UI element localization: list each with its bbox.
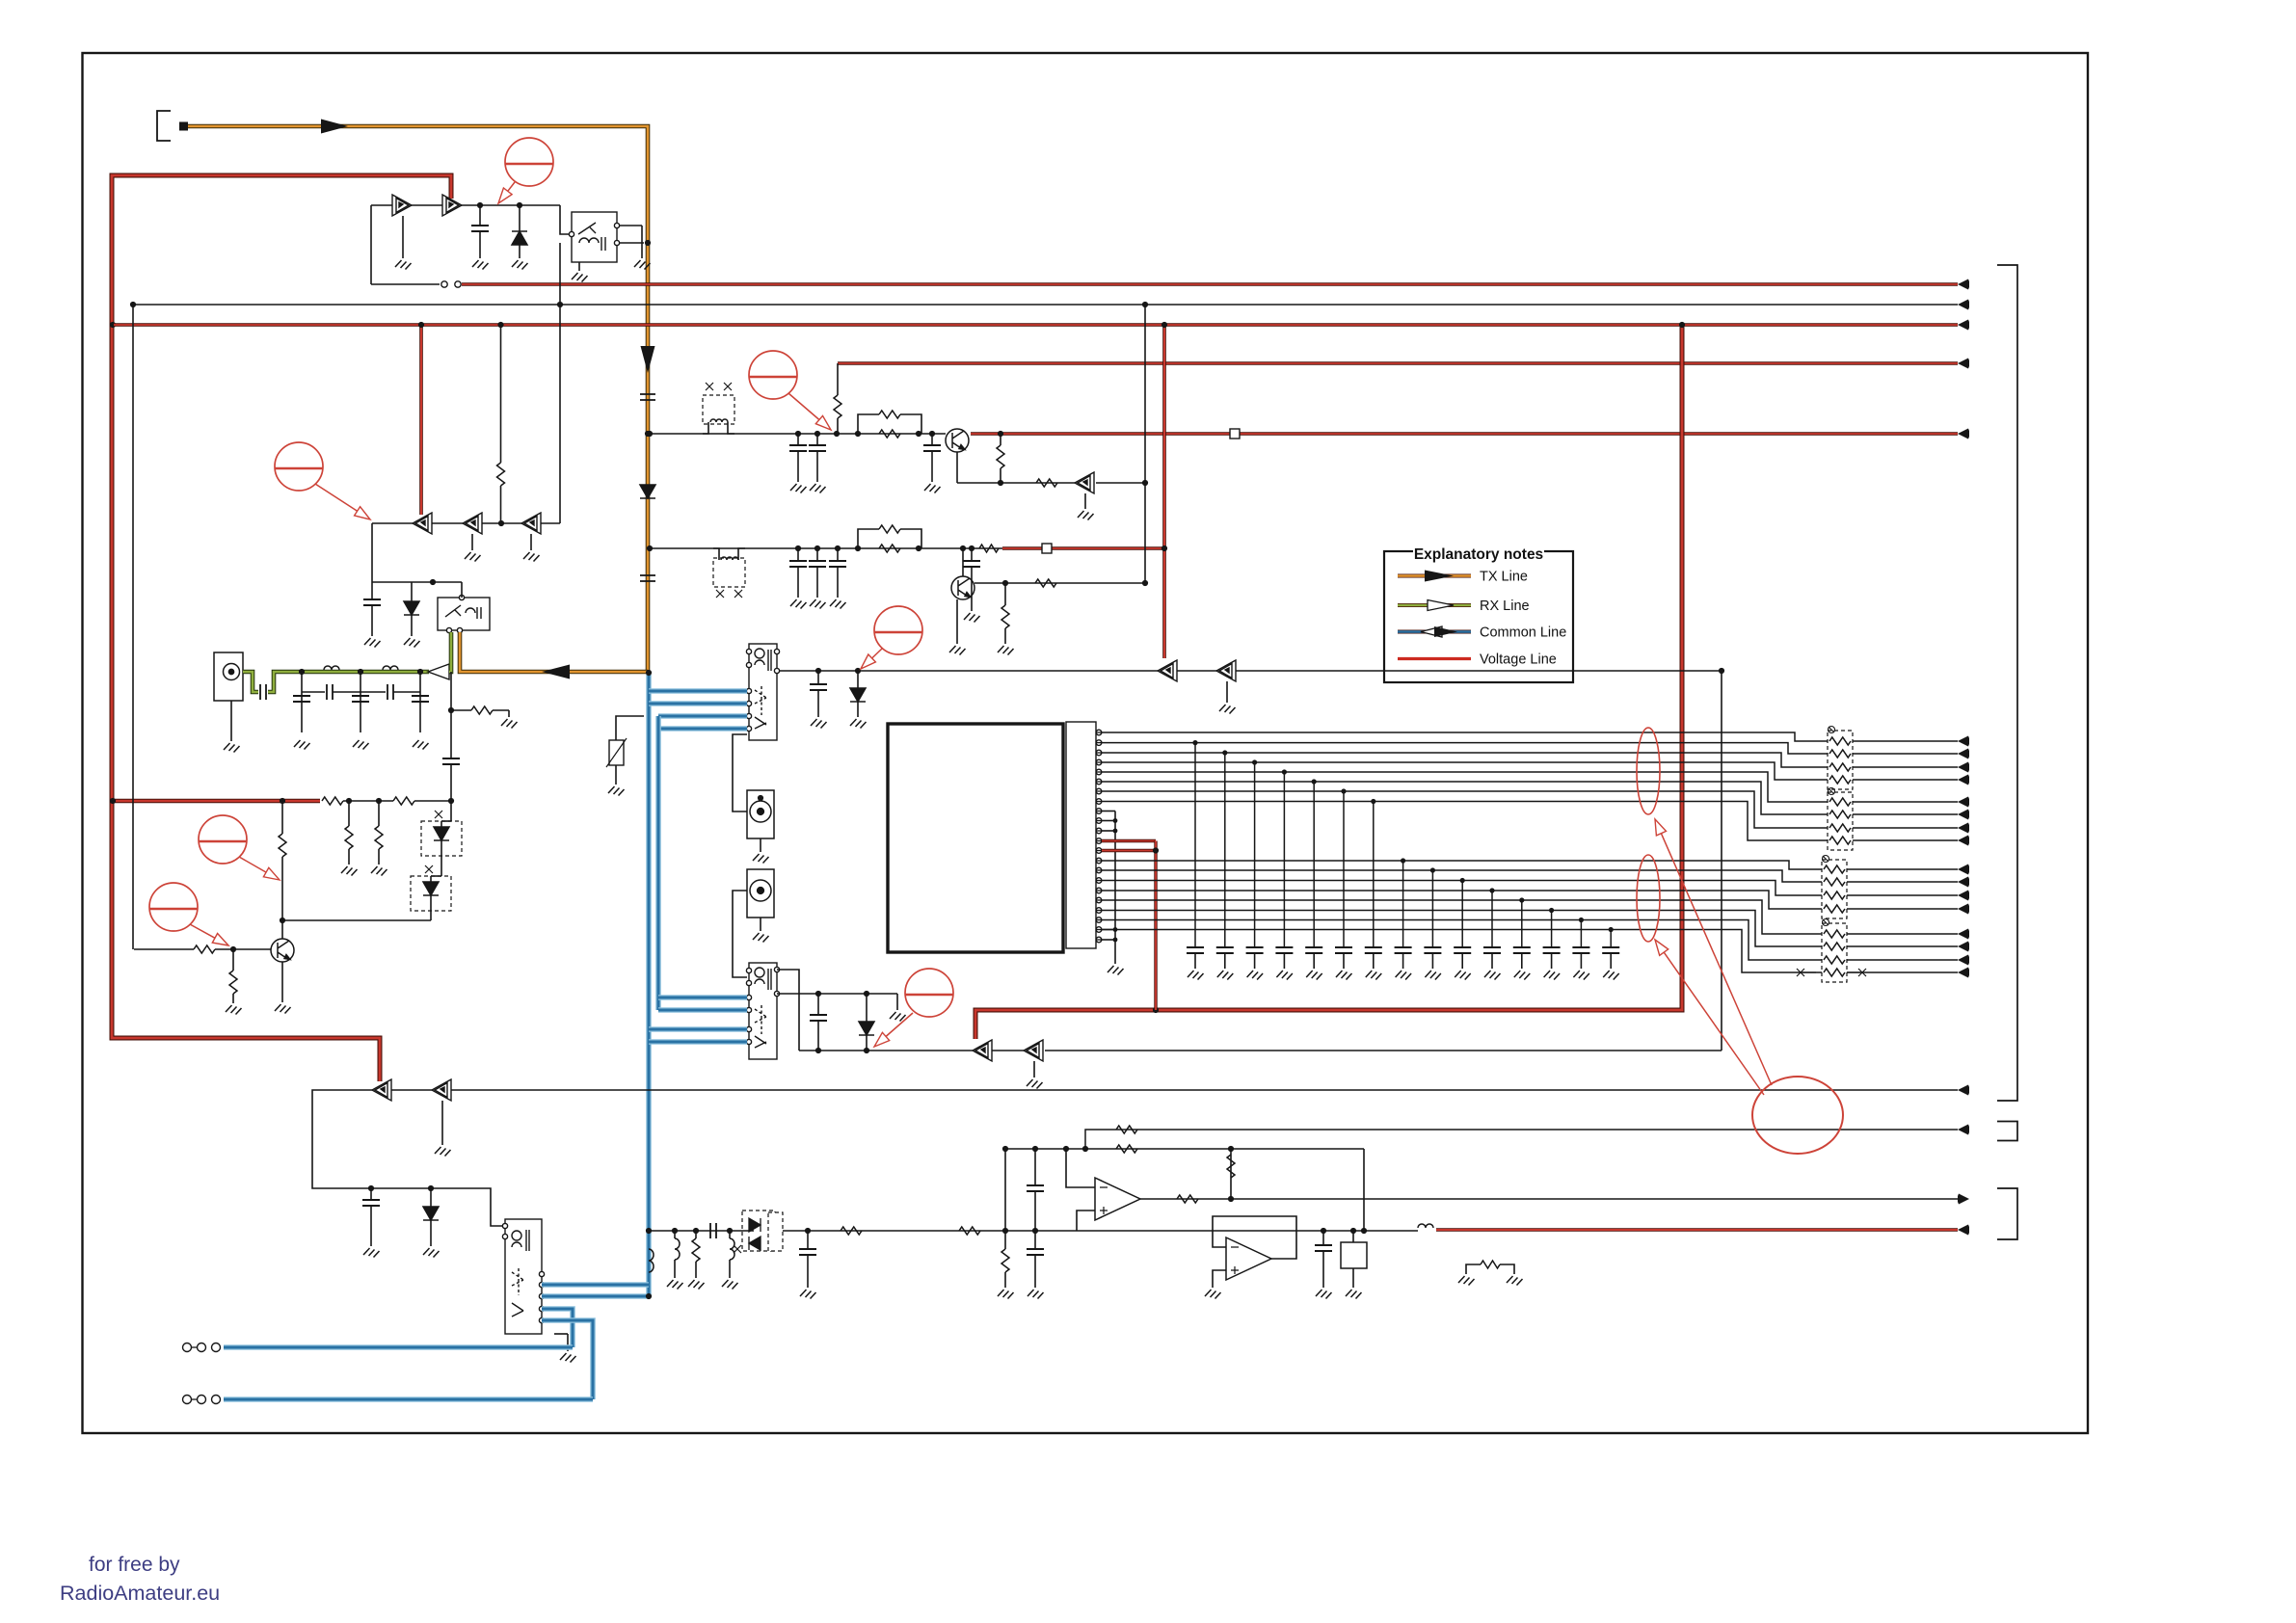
- svg-text:TX Line: TX Line: [1480, 570, 1528, 585]
- ground: [1108, 966, 1124, 975]
- ground: [1544, 971, 1561, 980]
- IC pin: [1096, 848, 1102, 854]
- resistor R q1b: [194, 945, 215, 953]
- off-page connector arrow: [1958, 968, 1969, 978]
- IC pin: [1096, 828, 1102, 834]
- buffer U7a: [372, 1079, 391, 1101]
- wire pin stub: [1096, 850, 1102, 852]
- capacitor: [363, 599, 381, 605]
- x-mark: [1858, 969, 1866, 976]
- resistor pack element: [1829, 798, 1851, 806]
- wire decoupling drop: [1491, 891, 1493, 947]
- capacitor C dec: [1216, 947, 1234, 953]
- node q1 col: [280, 918, 285, 923]
- node pin tie: [1113, 938, 1118, 943]
- wire: [441, 840, 442, 876]
- callout arrow: [886, 1013, 913, 1037]
- inductor: [324, 666, 339, 670]
- wire rx resistor branch: [450, 672, 452, 710]
- wire: [430, 876, 432, 882]
- wire decoupling drop: [1313, 782, 1315, 947]
- wire: [729, 1231, 731, 1238]
- wire common row1: [224, 1344, 573, 1350]
- capacitor C dec: [1187, 947, 1204, 953]
- node a7: [998, 431, 1003, 437]
- buffer U3c: [521, 513, 541, 534]
- relay pin: [446, 627, 451, 632]
- capacitor C rx s2: [387, 684, 393, 700]
- node m2: [855, 668, 861, 674]
- wire: [641, 226, 643, 258]
- inductor L fc1: [675, 1238, 680, 1260]
- callout circle 6: [874, 606, 922, 654]
- resistor R rx: [471, 706, 493, 714]
- pack pin mark: [1829, 788, 1835, 795]
- callout ellipse large: [1752, 1077, 1843, 1154]
- wire pack out: [1847, 908, 1958, 910]
- wire rowA jog: [703, 422, 708, 434]
- callout circle 5: [149, 883, 198, 931]
- wire U9 plus: [1213, 1270, 1226, 1288]
- capacitor C dec: [1246, 947, 1264, 953]
- crystal box X1: [1341, 1242, 1367, 1268]
- capacitor C ll: [362, 1200, 380, 1206]
- node y831c: [448, 798, 454, 804]
- diode on TX feed: [640, 485, 655, 498]
- buffer U3b: [463, 513, 482, 534]
- callout circle 2: [275, 442, 323, 491]
- inductor L fc2: [730, 1238, 734, 1260]
- wire: [1352, 1268, 1354, 1288]
- off-page connector arrow: [1958, 942, 1969, 952]
- IC pin: [1096, 897, 1102, 903]
- wire pin ground rail: [1114, 811, 1116, 965]
- buffer U6b: [1024, 1040, 1043, 1061]
- IC pin: [1096, 779, 1102, 785]
- ground: [890, 1012, 906, 1022]
- capacitor C dec: [1602, 947, 1619, 953]
- ground: [1028, 1290, 1044, 1299]
- wire pack out: [1847, 868, 1958, 870]
- node pin tie: [1113, 818, 1118, 823]
- svg-text:Common Line: Common Line: [1480, 625, 1566, 641]
- wire T3 feed left: [491, 1219, 502, 1226]
- wire out res up: [1230, 1149, 1232, 1199]
- ground: [1217, 971, 1234, 980]
- capacitor C dec: [1305, 947, 1322, 953]
- diode D t1: [512, 231, 527, 245]
- wire: [817, 690, 819, 717]
- wire IC data line: [1102, 772, 1828, 802]
- wire U8 plus in: [1077, 1211, 1095, 1231]
- wire pack out: [1853, 839, 1958, 841]
- wire decoupling drop: [1610, 930, 1612, 948]
- off-page connector arrow: [1958, 891, 1969, 901]
- resistor pack RP2: [1828, 792, 1853, 850]
- off-page connector arrow: [1958, 810, 1969, 820]
- ground: [830, 599, 846, 609]
- wire y1131 long: [451, 1089, 1958, 1091]
- wire q3 emitter: [956, 599, 958, 644]
- node q1 base: [230, 946, 236, 952]
- node y604: [430, 579, 436, 585]
- wire decoupling drop: [1461, 881, 1463, 948]
- S2 pin: [746, 1039, 751, 1044]
- callout arrow: [788, 393, 819, 420]
- T3 pin: [539, 1271, 544, 1276]
- resistor R au3: [1001, 1249, 1009, 1272]
- node x519-bus2: [497, 322, 503, 328]
- node ll2: [428, 1185, 434, 1191]
- ground: [811, 719, 827, 729]
- capacitor C au3: [1315, 1245, 1332, 1251]
- wire U4 out: [1096, 482, 1145, 484]
- wire: [1034, 1255, 1036, 1288]
- bracket group right 1: [1997, 265, 2017, 1101]
- resistor pack element: [1824, 956, 1845, 964]
- S1 pin: [746, 713, 751, 718]
- S2 pin out: [774, 967, 779, 971]
- wire: [797, 451, 799, 482]
- wire: [431, 875, 441, 877]
- wire J2 stem: [760, 838, 761, 852]
- ground: [294, 740, 310, 750]
- node blue join: [646, 1293, 652, 1299]
- wire: [857, 702, 859, 717]
- callout arrow: [872, 649, 882, 658]
- bracket group right 3: [1997, 1188, 2017, 1239]
- wire pin stub: [1096, 761, 1102, 763]
- ground: [1027, 1079, 1043, 1089]
- resistor R out: [1177, 1195, 1198, 1203]
- wire decoupling drop: [1551, 911, 1553, 948]
- wire IC data line: [1102, 753, 1828, 767]
- resistor R fc: [692, 1238, 700, 1262]
- op-amp U9: [1226, 1237, 1271, 1280]
- ground: [1507, 1276, 1523, 1286]
- wire: [519, 245, 521, 258]
- node row543: [498, 520, 504, 526]
- ground: [924, 484, 941, 493]
- capacitor C b: [809, 561, 826, 567]
- wire pin stub: [1096, 771, 1102, 773]
- wire U7a link: [391, 1089, 432, 1091]
- resistor R a p2: [879, 430, 900, 438]
- callout arrow: [315, 484, 358, 511]
- ground: [1455, 971, 1471, 980]
- node drop tap: [1252, 759, 1257, 764]
- wire pin tie: [1102, 929, 1115, 931]
- capacitor C rx coupling: [260, 684, 266, 700]
- node s2c: [815, 1048, 821, 1053]
- resistor pack element: [1824, 943, 1845, 950]
- resistor pack RP3: [1822, 860, 1847, 918]
- resistor R y831b: [375, 826, 383, 849]
- wire subcircuit top y213: [371, 204, 560, 206]
- x-mark: [425, 865, 433, 873]
- S1 pin: [746, 649, 751, 653]
- capacitor C dec: [1424, 947, 1441, 953]
- node drop tap: [1519, 897, 1524, 902]
- resistor pack element: [1824, 891, 1845, 899]
- ground: [688, 1280, 705, 1290]
- wire pin stub: [1096, 781, 1102, 783]
- wire pin stub: [1096, 732, 1102, 733]
- S1 pin out: [774, 649, 779, 653]
- capacitor C s2: [810, 1015, 827, 1021]
- IC pin: [1096, 878, 1102, 884]
- callout arrow: [1664, 952, 1764, 1095]
- wire relay out2: [620, 242, 644, 244]
- wire J3 link: [733, 891, 747, 977]
- node out1: [1228, 1196, 1234, 1202]
- resistor pack element: [1824, 930, 1845, 938]
- wire b cap out: [971, 548, 973, 561]
- ground: [224, 743, 240, 753]
- capacitor C fc series: [710, 1223, 716, 1238]
- wire pin stub: [1096, 880, 1102, 882]
- capacitor on TX feed 2: [640, 575, 655, 581]
- capacitor C rx c: [412, 696, 429, 702]
- wire pack out: [1853, 740, 1958, 742]
- IC pin: [1096, 937, 1102, 943]
- wire row A: [650, 433, 946, 435]
- x-mark: [734, 1245, 741, 1253]
- ground: [523, 552, 540, 562]
- ground: [1514, 971, 1531, 980]
- node a3: [834, 431, 840, 437]
- wire y501: [957, 482, 1075, 484]
- node a4: [855, 431, 861, 437]
- S1 pin: [746, 688, 751, 693]
- wire IC data line: [1102, 930, 1822, 973]
- node TX-rowB: [647, 545, 653, 551]
- resistor R fb B: [1035, 579, 1056, 587]
- ground: [1336, 971, 1352, 980]
- ground: [395, 260, 412, 270]
- wire au main 2: [1077, 1230, 1418, 1232]
- buffer U2a: [392, 195, 412, 216]
- TX direction arrow: [321, 120, 348, 134]
- wire b cap: [816, 548, 818, 561]
- ground: [810, 484, 826, 493]
- wire y831 black: [343, 800, 393, 802]
- wire U5b gnd: [1226, 681, 1228, 703]
- capacitor C dec: [1275, 947, 1293, 953]
- S2 pin out: [774, 991, 779, 996]
- wire U3b gnd stem: [471, 534, 473, 550]
- ground: [1458, 1276, 1475, 1286]
- wire y831 to detector: [414, 800, 451, 802]
- buffer U6a: [973, 1040, 992, 1061]
- ground: [353, 740, 369, 750]
- wire pack out: [1847, 945, 1958, 947]
- node b3: [835, 545, 841, 551]
- wire: [411, 582, 413, 601]
- wire: [738, 548, 745, 560]
- diode D y604: [404, 601, 419, 615]
- S2 pin: [746, 1026, 751, 1031]
- wire pin stub: [1096, 811, 1102, 812]
- ground: [226, 1005, 242, 1015]
- wire q1 emitter: [281, 962, 283, 1002]
- ground: [423, 1248, 440, 1258]
- ground: [1316, 1290, 1332, 1299]
- IC U1: [888, 724, 1063, 952]
- node drop tap: [1222, 750, 1227, 755]
- node b5: [916, 545, 921, 551]
- wire: [857, 671, 859, 688]
- antenna connector J1: [214, 652, 243, 701]
- wire au3 cap: [1322, 1231, 1324, 1245]
- node IC supply: [1153, 847, 1159, 853]
- ground: [800, 1290, 816, 1299]
- resistor R a bias: [834, 395, 841, 418]
- wire: [450, 764, 452, 821]
- resistor pack element: [1829, 811, 1851, 818]
- inductor L blue: [649, 1249, 654, 1272]
- marker square on B5: [1042, 544, 1052, 553]
- ground: [275, 1004, 291, 1014]
- wire: [837, 567, 839, 598]
- switch block S1: [749, 644, 777, 740]
- node s2d: [864, 1048, 869, 1053]
- node b6: [969, 545, 974, 551]
- wire: [281, 857, 283, 920]
- resistor R y831a: [345, 826, 353, 849]
- wire au0 cap: [807, 1231, 809, 1249]
- op-amp U8: [1095, 1178, 1140, 1220]
- ground: [1276, 971, 1293, 980]
- node rail top: [130, 302, 136, 307]
- ground: [1573, 971, 1589, 980]
- wire q1 base row: [134, 948, 194, 950]
- node y831a: [346, 798, 352, 804]
- node TX tap A: [645, 431, 651, 437]
- pack pin mark: [1823, 856, 1829, 863]
- node rx3: [417, 669, 423, 675]
- resistor pack element: [1824, 878, 1845, 886]
- wire: [729, 1260, 731, 1278]
- wire: [479, 205, 481, 226]
- wire: [837, 418, 839, 434]
- capacitor C m1: [810, 684, 827, 690]
- off-page connector arrow: [1958, 300, 1969, 310]
- wire: [451, 709, 471, 711]
- RX direction open arrow: [428, 664, 449, 679]
- wire: [360, 672, 361, 732]
- x-mark: [724, 383, 732, 390]
- ground: [998, 1290, 1014, 1299]
- wire y604: [372, 581, 462, 583]
- x-mark: [1797, 969, 1804, 976]
- dashed diode box 2: [411, 876, 451, 911]
- wire a cap out: [931, 434, 933, 445]
- relay K1: [572, 212, 617, 262]
- node q3: [960, 545, 966, 551]
- wire common c1: [542, 1309, 573, 1347]
- dashed transformer T1: [703, 395, 734, 424]
- wire U6b gnd: [1033, 1061, 1035, 1078]
- capacitor C dec: [1365, 947, 1382, 953]
- inductor T2 coil: [721, 557, 738, 560]
- node drop tap: [1312, 779, 1317, 784]
- node drop tap: [1460, 878, 1465, 883]
- wire q2 emitter: [956, 452, 958, 483]
- wire J2 link: [733, 734, 747, 811]
- wire audio main: [783, 1230, 1077, 1232]
- wire voltage vertical x1208: [1162, 325, 1166, 658]
- wire: [1461, 953, 1463, 969]
- wire: [1580, 953, 1582, 969]
- relay pin: [457, 627, 462, 632]
- legend Voltage line sample: [1398, 657, 1471, 660]
- wire pin stub: [1096, 919, 1102, 921]
- resistor pack element: [1829, 750, 1851, 758]
- wire: [500, 486, 502, 523]
- ground: [1484, 971, 1501, 980]
- ground: [722, 1280, 738, 1290]
- IC pin: [1096, 730, 1102, 735]
- resistor R au2: [959, 1227, 980, 1235]
- wire y831a divider: [348, 801, 350, 826]
- node y831b: [376, 798, 382, 804]
- buffer U2b: [442, 195, 462, 216]
- wire common b1: [542, 1282, 649, 1288]
- ground: [608, 786, 625, 796]
- callout arrow: [239, 857, 266, 872]
- capacitor C rx s1: [327, 684, 333, 700]
- wire: [816, 567, 818, 598]
- wire b cap: [797, 548, 799, 561]
- wire row B: [650, 547, 1002, 549]
- off-page connector arrow: [1958, 877, 1969, 888]
- IC pin: [1096, 759, 1102, 765]
- ground: [413, 740, 429, 750]
- wire: [1431, 953, 1433, 969]
- ground: [790, 599, 807, 609]
- wire J3 stem: [760, 918, 761, 931]
- wire subcircuit bottom: [371, 283, 440, 285]
- wire: [348, 849, 350, 865]
- capacitor C b: [789, 561, 807, 567]
- wire rowB jog: [713, 548, 719, 560]
- node drop tap: [1341, 788, 1346, 793]
- wire: [333, 691, 386, 693]
- wire buffer row y543: [372, 522, 560, 524]
- ground: [1396, 971, 1412, 980]
- pack RP4 x marks: [1802, 971, 1860, 973]
- ground: [810, 599, 826, 609]
- wire IC data line: [1102, 881, 1822, 896]
- wire: [1521, 953, 1523, 969]
- wire black x1786: [1721, 671, 1722, 1051]
- wire y696 common: [777, 670, 1722, 672]
- capacitor on TX feed: [640, 394, 655, 400]
- wire varistor top: [616, 716, 644, 740]
- inductor: [383, 666, 398, 670]
- varistor RV1: [609, 740, 624, 765]
- relay K2 antenna: [438, 598, 490, 630]
- capacitor C dec: [1454, 947, 1471, 953]
- wire: [1313, 953, 1315, 969]
- buffer U3a: [413, 513, 432, 534]
- ground: [472, 260, 489, 270]
- inductor T1 coil: [710, 419, 728, 422]
- capacitor C au1: [1027, 1249, 1044, 1255]
- resistor R v2: [393, 797, 414, 805]
- relay pin: [569, 231, 574, 236]
